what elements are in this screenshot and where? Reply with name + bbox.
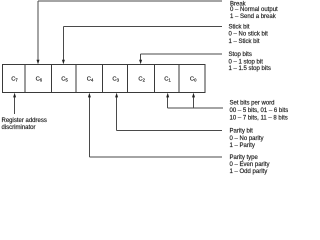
svg-text:10 – 7 bits, 11 – 8 bits: 10 – 7 bits, 11 – 8 bits — [230, 116, 288, 122]
register box row outline (control register) — [3, 65, 206, 93]
wire: set bits vertical from C1 — [167, 96, 169, 108]
arrowhead into C2 top — [139, 60, 142, 65]
svg-text:00 – 5 bits, 01 – 6 bits: 00 – 5 bits, 01 – 6 bits — [230, 108, 289, 114]
wire: set bits per word bracket horizontal to label — [168, 107, 223, 109]
svg-text:C0: C0 — [190, 76, 197, 82]
svg-text:C3: C3 — [112, 76, 119, 82]
svg-text:Stop bits: Stop bits — [229, 52, 252, 58]
svg-text:Parity type: Parity type — [230, 155, 259, 161]
svg-text:1 – Odd parity: 1 – Odd parity — [230, 169, 268, 175]
bit cell divider C7/C6 — [24, 65, 26, 93]
wire: set bits vertical from C0 — [193, 96, 195, 108]
svg-text:1 – Send a break: 1 – Send a break — [230, 14, 277, 20]
svg-text:0 – Normal output: 0 – Normal output — [230, 7, 278, 13]
svg-text:C5: C5 — [61, 76, 68, 82]
wire: parity bit horizontal to label — [117, 129, 222, 131]
arrowhead into C3 bottom — [115, 93, 118, 98]
arrowhead into C1 bottom — [166, 93, 169, 98]
svg-text:discriminator: discriminator — [2, 125, 36, 131]
wire: parity bit vertical from C3 — [116, 96, 118, 130]
svg-text:Register address: Register address — [2, 118, 47, 124]
wire: register address discriminator vertical from C7 — [14, 96, 16, 114]
arrowhead into C7 bottom — [13, 93, 16, 98]
svg-text:0 – 1 stop bit: 0 – 1 stop bit — [229, 60, 264, 66]
svg-text:0 – Even parity: 0 – Even parity — [230, 162, 270, 168]
wire: break vertical drop to C6 — [37, 1, 39, 61]
wire: stick bit vertical drop to C5 — [62, 27, 64, 61]
bit cell divider C1/C0 — [178, 65, 180, 93]
bit cell divider C5/C4 — [75, 65, 77, 93]
wire: stop bits horizontal to label — [141, 53, 222, 55]
wire: stick bit horizontal to label — [63, 26, 222, 28]
svg-text:0 – No parity: 0 – No parity — [230, 136, 264, 142]
svg-text:C7: C7 — [11, 76, 18, 82]
svg-text:Parity bit: Parity bit — [230, 128, 254, 134]
bit cell divider C2/C1 — [153, 65, 155, 93]
wire: parity type vertical from C4 — [88, 96, 90, 157]
bit cell divider C6/C5 — [50, 65, 52, 93]
arrowhead into C6 top — [37, 60, 40, 65]
svg-text:C6: C6 — [36, 76, 43, 82]
arrowhead into C5 top — [62, 60, 65, 65]
wire: stop bits vertical drop to C2 — [140, 54, 142, 61]
wire: parity type horizontal to label — [89, 156, 222, 158]
arrowhead into C4 bottom — [88, 93, 91, 98]
svg-text:C4: C4 — [87, 76, 94, 82]
svg-text:1 – Stick bit: 1 – Stick bit — [229, 39, 260, 45]
wire: break line horizontal to label — [38, 0, 222, 2]
svg-text:Set bits per word: Set bits per word — [230, 100, 275, 106]
bit cell divider C4/C3 — [101, 65, 103, 93]
svg-text:0 – No stick bit: 0 – No stick bit — [229, 32, 269, 38]
svg-text:1 – Parity: 1 – Parity — [230, 143, 255, 149]
arrowhead into C0 bottom — [192, 93, 195, 98]
bit cell divider C3/C2 — [126, 65, 128, 93]
svg-text:Stick bit: Stick bit — [229, 25, 250, 31]
svg-text:C1: C1 — [164, 76, 171, 82]
svg-text:1 – 1.5 stop bits: 1 – 1.5 stop bits — [229, 66, 271, 72]
svg-text:C2: C2 — [138, 76, 145, 82]
